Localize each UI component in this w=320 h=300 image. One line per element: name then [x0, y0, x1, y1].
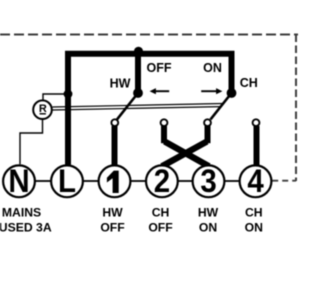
svg-text:ON: ON: [203, 61, 222, 75]
wire R bottom to terminal N: [20, 120, 43, 165]
svg-text:CH: CH: [245, 205, 263, 219]
mechanical link double line upper: [53, 104, 224, 108]
svg-text:3: 3: [200, 163, 216, 199]
contact circle CH OFF: [204, 119, 211, 126]
svg-text:R: R: [39, 103, 47, 115]
svg-text:FUSED 3A: FUSED 3A: [0, 220, 52, 234]
junction L riser / R feed: [64, 90, 73, 99]
wire R top to L riser: [43, 94, 68, 100]
svg-text:MAINS: MAINS: [2, 205, 41, 219]
svg-text:CH: CH: [152, 205, 170, 219]
wire N-L link: [36, 180, 51, 182]
wire stub below HW ON contact: [161, 126, 167, 143]
contact circle CH ON (above terminal 4): [253, 119, 260, 126]
switch HW pole dot: [133, 88, 143, 98]
wire L-1 link: [84, 180, 99, 182]
svg-text:HW: HW: [102, 205, 123, 219]
switch CH pole dot: [227, 88, 237, 98]
terminal 4: [240, 163, 272, 199]
svg-text:CH: CH: [240, 76, 258, 90]
arrow OFF (left): [150, 88, 170, 94]
wire stub below CH OFF contact: [205, 126, 211, 143]
enclosure dashed border top: [0, 34, 298, 36]
wire HW pole riser: [135, 54, 141, 92]
svg-text:2: 2: [154, 163, 170, 199]
wire 3-4 link: [225, 180, 239, 182]
terminal N: [3, 163, 35, 199]
wire 1-2 link: [131, 180, 145, 182]
wire contact to terminal 1: [112, 126, 118, 165]
contact circle HW OFF (above terminal 1): [111, 119, 118, 126]
wire crossover HW ON contact to terminal 3: [165, 142, 209, 167]
svg-text:HW: HW: [198, 205, 219, 219]
label R underline: [40, 113, 46, 115]
label CH OFF (terminal 2): [148, 205, 172, 234]
svg-text:OFF: OFF: [148, 220, 172, 234]
enclosure dashed border right: [295, 35, 297, 182]
arrow ON (right): [201, 88, 222, 94]
wire contact to terminal 4: [254, 126, 260, 165]
wire crossover CH OFF contact to terminal 2: [162, 142, 207, 167]
label MAINS FUSED 3A: [0, 205, 52, 234]
terminal L: [51, 163, 83, 199]
svg-text:ON: ON: [245, 220, 263, 234]
terminal 3: [193, 163, 225, 199]
resistor R (clock motor) circle: [33, 100, 52, 119]
terminal 2: [146, 163, 178, 199]
label HW ON (terminal 3): [198, 205, 219, 234]
svg-text:4: 4: [247, 163, 263, 199]
svg-text:L: L: [58, 163, 76, 199]
svg-text:ON: ON: [199, 220, 217, 234]
junction top bar / HW riser: [134, 47, 143, 56]
svg-text:HW: HW: [110, 77, 131, 91]
label CH ON (terminal 4): [245, 205, 263, 234]
mechanical link double line lower: [53, 107, 222, 110]
contact circle HW ON: [161, 119, 168, 126]
svg-text:OFF: OFF: [100, 220, 124, 234]
svg-text:OFF: OFF: [147, 61, 172, 75]
wire 2-3 link: [178, 180, 192, 182]
wire terminal 4 to border (dashed stub): [272, 180, 296, 182]
switch HW blade: [117, 93, 138, 119]
terminal 1: [99, 165, 131, 197]
switch CH blade: [211, 93, 232, 119]
wire L riser and top feed bar to CH pole: [68, 54, 232, 165]
svg-text:N: N: [8, 163, 29, 199]
label HW OFF (terminal 1): [100, 205, 124, 234]
